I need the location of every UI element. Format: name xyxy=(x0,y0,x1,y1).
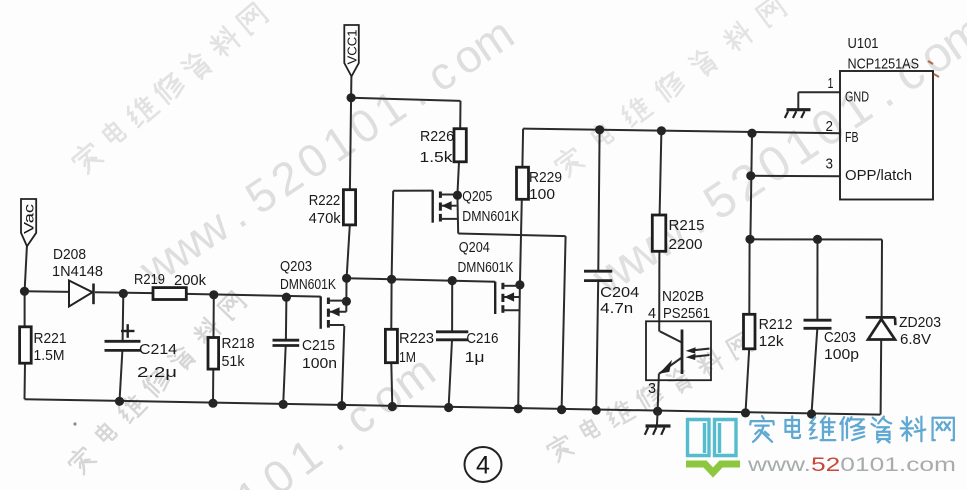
node dot OPP/latch tap xyxy=(746,171,755,180)
node A horizontal line (Q203 drain / gates / R223 / C216) xyxy=(347,278,496,282)
svg-text:R226: R226 xyxy=(420,129,454,145)
wire VCC1 node to R226 top xyxy=(351,98,460,101)
ground symbol below optocoupler xyxy=(645,411,671,435)
resistor R226 1.5k xyxy=(420,129,467,166)
svg-text:2: 2 xyxy=(826,119,834,135)
wire Q203 source to rail xyxy=(342,326,345,406)
divider top horizontal line xyxy=(750,238,882,240)
svg-text:1M: 1M xyxy=(399,350,416,366)
wire C204 branch xyxy=(598,130,599,270)
svg-text:100n: 100n xyxy=(302,356,337,372)
svg-text:51k: 51k xyxy=(222,354,246,370)
wire FB node vertical (to OPP and divider) xyxy=(750,133,752,239)
FB net horizontal line xyxy=(523,129,840,134)
svg-text:C203: C203 xyxy=(824,330,856,346)
capacitor C214 2.2u (polarized) xyxy=(105,324,178,381)
svg-text:Q203: Q203 xyxy=(280,259,312,275)
svg-text:VCC1: VCC1 xyxy=(345,30,360,65)
svg-text:100p: 100p xyxy=(824,347,859,363)
node dots on FB line xyxy=(595,125,604,134)
node dots on Vac line xyxy=(20,287,29,296)
wire R222 bottom to node A xyxy=(347,225,350,278)
wire Q205 gate drop xyxy=(393,190,433,192)
red scan specks near U101 xyxy=(928,61,939,77)
svg-text:C214: C214 xyxy=(139,342,177,358)
svg-text:R223: R223 xyxy=(399,331,434,347)
svg-text:1: 1 xyxy=(828,76,834,92)
svg-text:6.8V: 6.8V xyxy=(900,332,931,348)
svg-text:100: 100 xyxy=(529,187,555,203)
transistor Q205 DMN601K xyxy=(433,189,520,225)
ground rail (bottom) xyxy=(25,399,881,414)
transistor Q203 DMN601K xyxy=(280,259,346,329)
svg-text:Q204: Q204 xyxy=(459,240,490,256)
wire Q205 source to rail (right drop) xyxy=(456,195,459,233)
resistor R223 1M xyxy=(385,329,434,366)
svg-text:N202B: N202B xyxy=(662,289,704,305)
resistor R218 51k xyxy=(208,336,255,370)
svg-text:2200: 2200 xyxy=(669,237,703,253)
page number circled 4 xyxy=(465,447,502,482)
wire R215 branch from FB line xyxy=(660,131,662,215)
svg-text:4: 4 xyxy=(476,452,490,480)
svg-text:U101: U101 xyxy=(848,36,879,52)
wire R229 top to FB line xyxy=(521,129,524,168)
wire C215 branch xyxy=(285,297,288,339)
wire R212 branch xyxy=(748,239,750,314)
wire VCC1 drop xyxy=(350,76,352,97)
diode D208 1N4148 xyxy=(52,247,103,307)
svg-text:NCP1251AS: NCP1251AS xyxy=(848,57,920,73)
node dots on divider line xyxy=(745,235,754,244)
resistor R221 1.5M xyxy=(20,327,67,364)
node dots on node A line xyxy=(342,274,351,283)
scan speck xyxy=(73,422,76,425)
VCC1 supply flag xyxy=(344,25,359,76)
svg-text:DMN601K: DMN601K xyxy=(280,277,336,293)
capacitor C204 4.7n xyxy=(584,271,639,317)
node dot Q204 drain xyxy=(515,280,524,289)
site logo book icon xyxy=(688,420,737,456)
wire Vac input line (left horizontal net) xyxy=(25,290,70,293)
svg-text:3: 3 xyxy=(648,381,656,397)
svg-text:DMN601K: DMN601K xyxy=(458,260,514,276)
svg-text:R221: R221 xyxy=(34,331,67,347)
svg-text:www.520101.com: www.520101.com xyxy=(747,455,956,476)
svg-text:2.2μ: 2.2μ xyxy=(137,365,177,381)
svg-text:R222: R222 xyxy=(309,193,341,209)
wire C203 branch xyxy=(816,239,818,319)
svg-text:FB: FB xyxy=(845,130,859,146)
wire optocoupler pin 3 to rail xyxy=(658,374,659,412)
wire R226 bottom to Q205 drain xyxy=(457,162,459,195)
svg-text:12k: 12k xyxy=(759,334,785,350)
wire R218 branch xyxy=(213,295,215,338)
svg-text:1μ: 1μ xyxy=(465,350,485,366)
svg-text:C216: C216 xyxy=(466,331,498,347)
ground symbol at U101 pin 1 xyxy=(785,92,811,118)
svg-text:3: 3 xyxy=(826,157,834,173)
wire R215 bottom to optocoupler pin 4 xyxy=(658,251,660,331)
zener diode ZD203 6.8V xyxy=(866,315,941,348)
wire R221 bottom to rail xyxy=(24,363,27,399)
wire ZD203 branch xyxy=(881,240,883,318)
resistor R215 2200 xyxy=(652,215,704,253)
site logo text (hanzi strokes) xyxy=(750,416,774,442)
node dot Q203 drain xyxy=(342,297,351,306)
resistor R212 12k xyxy=(744,314,793,350)
svg-text:4: 4 xyxy=(648,306,656,322)
Vac input flag xyxy=(21,199,37,246)
svg-text:200k: 200k xyxy=(174,273,207,289)
node dot VCC1 junction xyxy=(347,93,356,102)
svg-text:ZD203: ZD203 xyxy=(899,315,941,331)
svg-text:4.7n: 4.7n xyxy=(600,301,633,317)
wire C214 branch xyxy=(122,294,125,342)
svg-text:R212: R212 xyxy=(759,317,793,333)
svg-text:Q205: Q205 xyxy=(462,189,492,205)
wire Vac drop to R221 xyxy=(25,246,27,291)
svg-text:R218: R218 xyxy=(222,336,255,352)
svg-text:OPP/latch: OPP/latch xyxy=(845,168,912,184)
IC U101 NCP1251AS xyxy=(826,36,934,200)
node dot Q205 drain xyxy=(453,191,462,200)
svg-text:GND: GND xyxy=(845,90,869,106)
wire U101 pin 3 lead xyxy=(751,175,840,177)
site logo book ribbon xyxy=(686,464,740,473)
capacitor C203 100p xyxy=(804,320,860,363)
resistor R219 200k xyxy=(134,272,207,300)
svg-text:Vac: Vac xyxy=(21,204,37,234)
svg-text:R219: R219 xyxy=(134,272,165,288)
wire VCC1 node to R222 xyxy=(350,98,351,190)
svg-text:R215: R215 xyxy=(669,218,705,234)
wire R229 bottom to Q204 drain xyxy=(520,199,522,285)
svg-text:D208: D208 xyxy=(53,247,86,263)
resistor R222 470k xyxy=(309,190,356,227)
capacitor C215 100n xyxy=(273,338,338,372)
wire Q204 source to rail xyxy=(518,285,520,409)
svg-text:PS2561: PS2561 xyxy=(663,306,710,322)
svg-text:1.5k: 1.5k xyxy=(420,150,454,166)
wire R223 branch xyxy=(390,279,392,329)
wire U101 pin 1 lead xyxy=(798,91,840,93)
node dots on ground rail xyxy=(115,397,124,406)
optocoupler N202B PS2561 xyxy=(646,289,711,397)
resistor R229 100 xyxy=(517,167,563,203)
svg-text:470k: 470k xyxy=(309,211,342,227)
svg-text:C204: C204 xyxy=(600,285,639,301)
transistor Q204 DMN601K xyxy=(458,240,520,314)
svg-text:1.5M: 1.5M xyxy=(34,348,65,364)
svg-text:1N4148: 1N4148 xyxy=(52,264,103,280)
wire C216 branch xyxy=(451,281,453,333)
svg-text:DMN601K: DMN601K xyxy=(462,209,519,225)
wire node A down to Q203 drain xyxy=(345,278,347,312)
svg-text:R229: R229 xyxy=(529,170,562,186)
svg-text:C215: C215 xyxy=(302,338,335,354)
capacitor C216 1u xyxy=(436,331,498,366)
